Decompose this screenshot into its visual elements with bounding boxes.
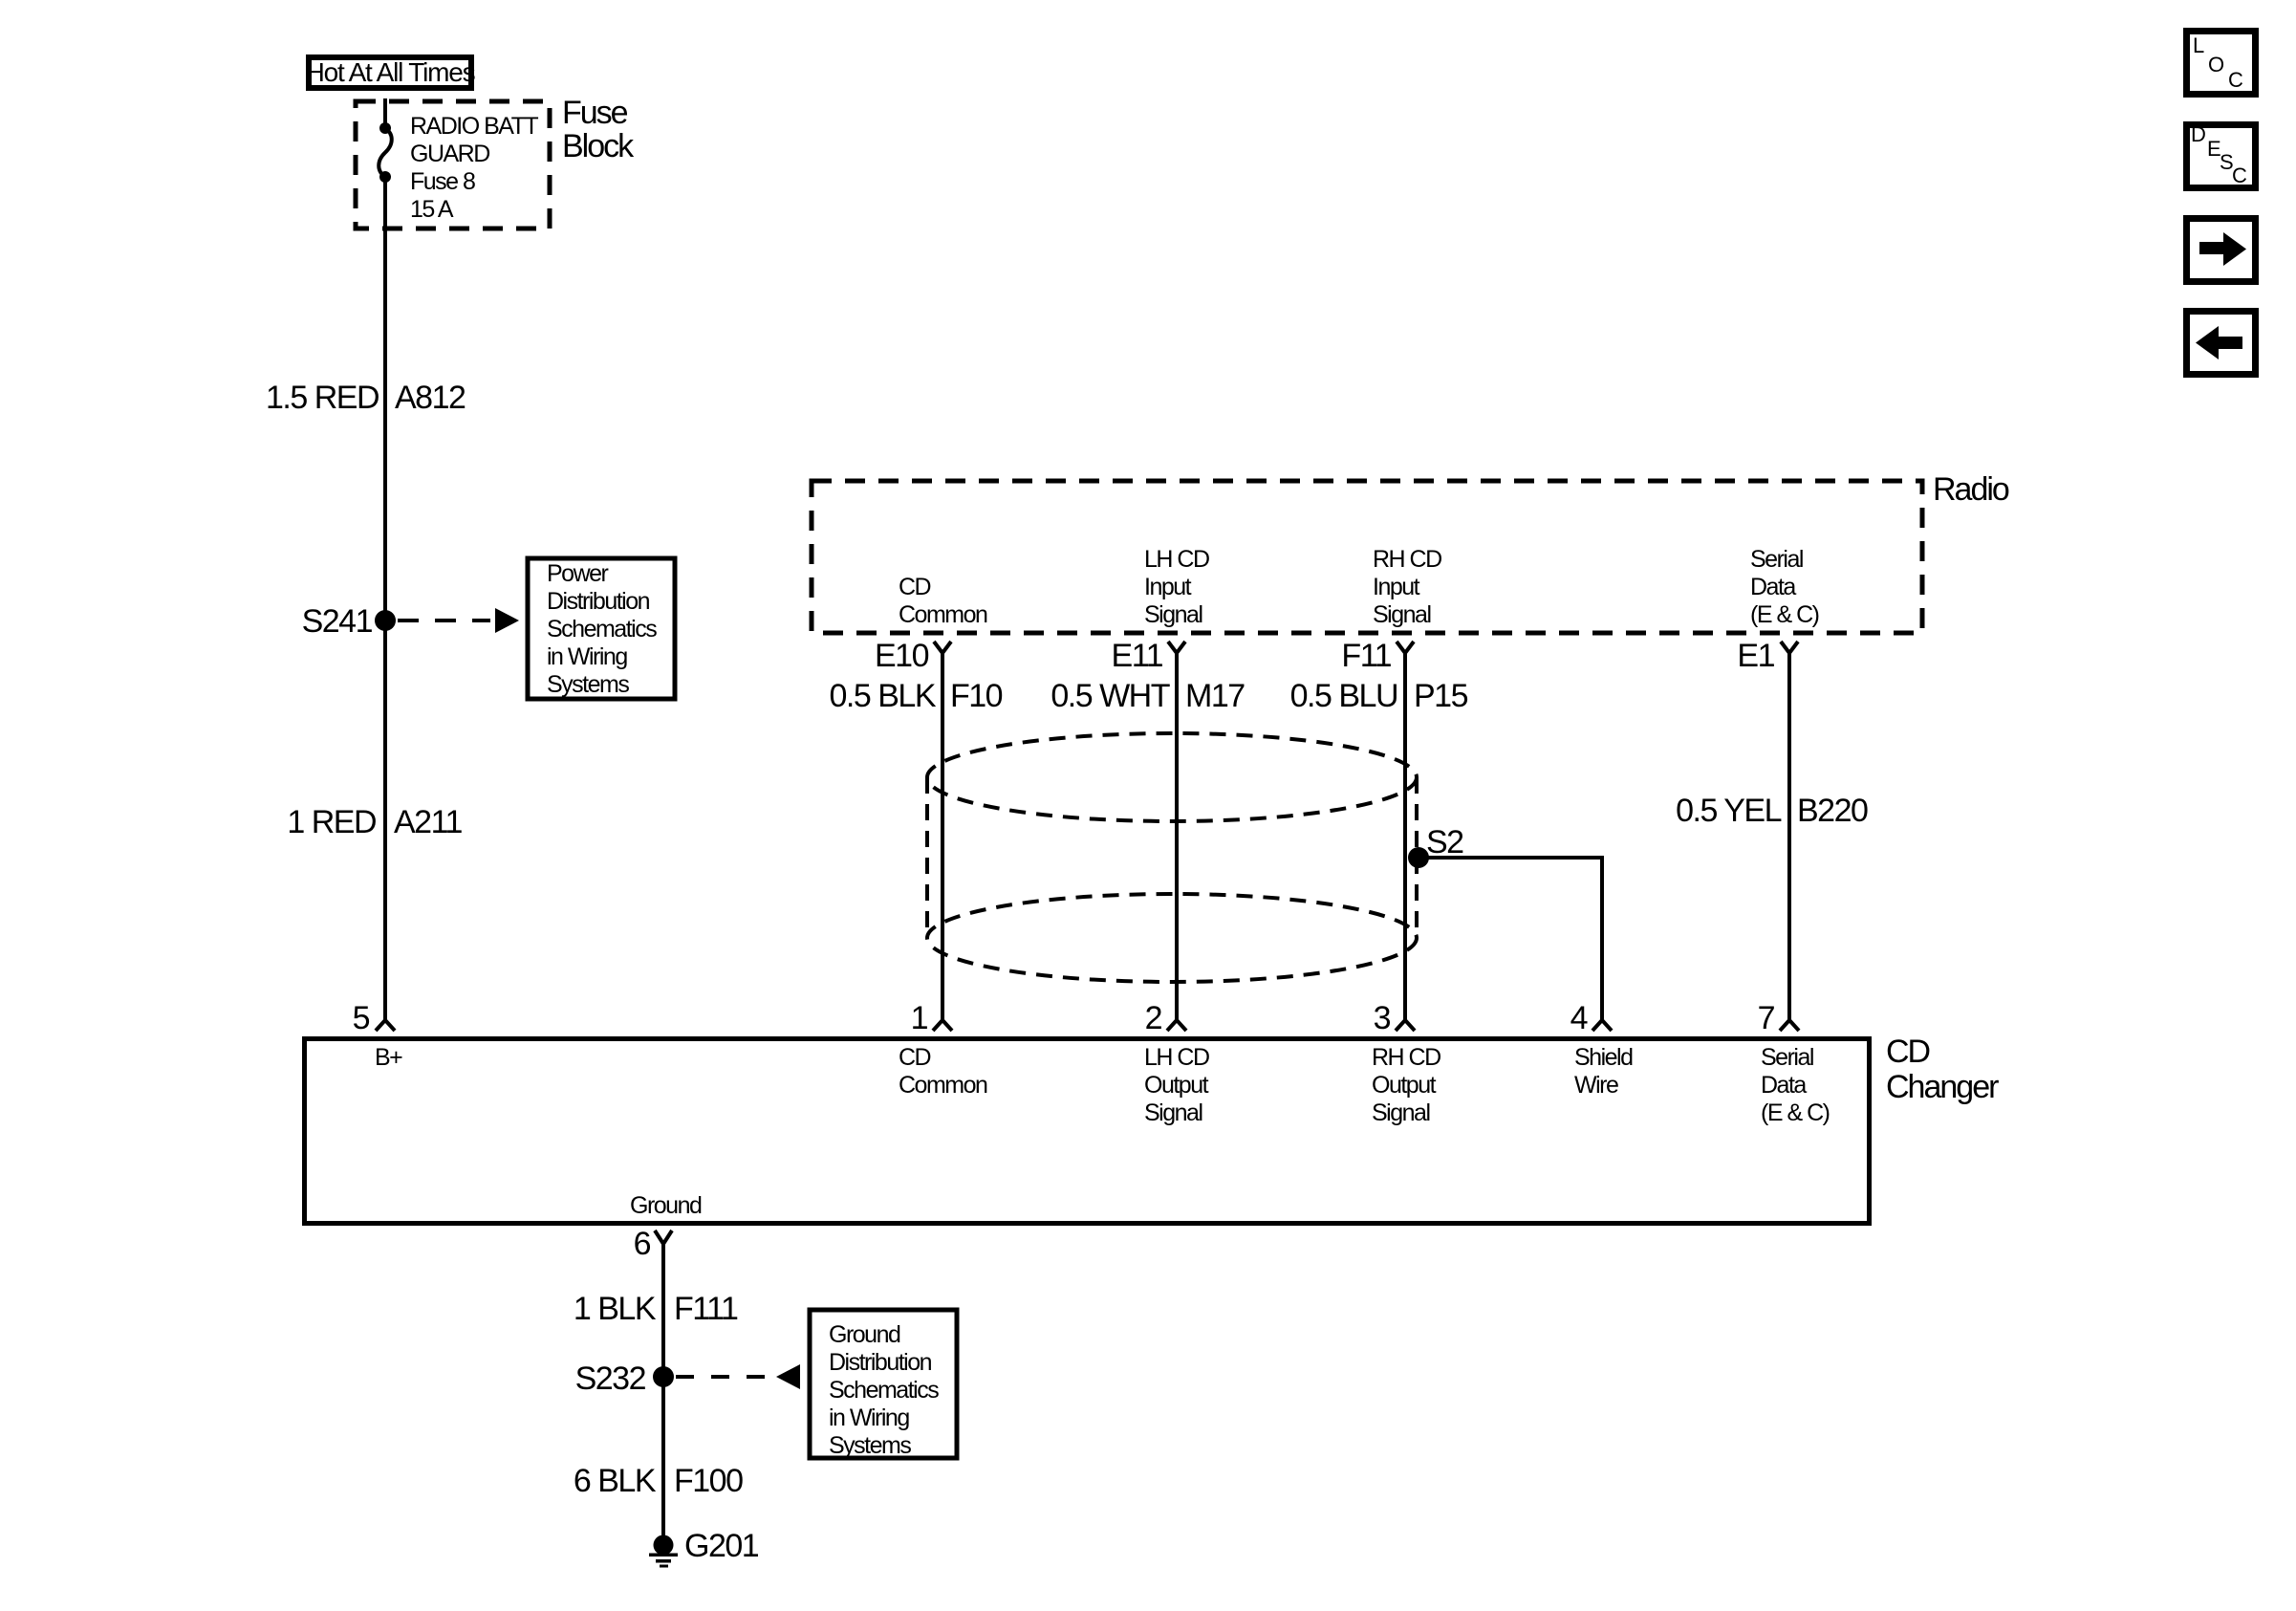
Radio pin E11 connector fork — [1112, 638, 1185, 674]
svg-text:CD: CD — [899, 1044, 931, 1071]
svg-text:LH CD: LH CD — [1144, 1044, 1209, 1071]
fuse block label: Fuse Block — [562, 95, 635, 164]
fuse F8 value label: RADIO BATT GUARD Fuse 8 15 A — [410, 113, 538, 223]
svg-text:in Wiring: in Wiring — [829, 1404, 909, 1431]
svg-text:Fuse: Fuse — [562, 95, 628, 131]
fuse F8 symbol — [379, 122, 392, 183]
CD Changer pin 1 connector fork — [911, 1000, 952, 1036]
CD Changer pin 6 connector fork — [634, 1226, 672, 1262]
fuse block dashed box — [356, 101, 550, 229]
svg-text:S241: S241 — [302, 603, 373, 640]
CD Changer pin label: LH CD Output Signal — [1144, 1044, 1209, 1126]
CD Changer pin label: Ground — [630, 1192, 702, 1219]
svg-text:Shield: Shield — [1574, 1044, 1633, 1071]
legend box: forward arrow — [2187, 219, 2256, 282]
svg-text:Signal: Signal — [1144, 601, 1202, 628]
svg-text:6: 6 — [634, 1226, 651, 1262]
wire: LH CD E11 to pin 2 — [1175, 653, 1179, 1020]
Radio label — [1933, 471, 2009, 508]
legend box: back arrow — [2187, 312, 2256, 375]
svg-text:in Wiring: in Wiring — [547, 643, 627, 670]
svg-text:Ground: Ground — [829, 1321, 900, 1348]
svg-text:3: 3 — [1374, 1000, 1391, 1036]
Radio pin F11 connector fork — [1341, 638, 1414, 674]
svg-text:Changer: Changer — [1886, 1069, 1999, 1105]
wire label: 0.5 YEL B220 — [1676, 793, 1868, 829]
Radio pin label: CD Common — [899, 574, 987, 628]
reference box: Ground Distribution Schematics in Wiring Systems — [810, 1310, 957, 1459]
svg-text:E10: E10 — [875, 638, 929, 674]
CD Changer pin 3 connector fork — [1374, 1000, 1415, 1036]
CD Changer pin 7 connector fork — [1758, 1000, 1799, 1036]
node label: Hot At All Times box — [306, 57, 475, 88]
svg-text:Common: Common — [899, 1072, 987, 1099]
svg-text:Signal: Signal — [1373, 601, 1431, 628]
CD Changer box — [305, 1039, 1870, 1224]
svg-text:D: D — [2191, 122, 2206, 146]
CD Changer pin 4 connector fork — [1570, 1000, 1612, 1036]
svg-text:F100: F100 — [674, 1463, 743, 1499]
dashed reference arrow from S232 to Ground Distribution box — [676, 1364, 800, 1389]
svg-text:GUARD: GUARD — [410, 141, 489, 167]
wire label: 1.5 RED A812 — [266, 380, 466, 416]
svg-text:1.5 RED: 1.5 RED — [266, 380, 379, 416]
wire: battery feed into fuse — [383, 98, 387, 128]
wire: Serial Data E1 to pin 7 — [1787, 653, 1791, 1020]
svg-text:Data: Data — [1750, 574, 1796, 600]
svg-text:A211: A211 — [394, 804, 462, 840]
node S232 junction dot — [575, 1361, 674, 1397]
svg-text:L: L — [2193, 33, 2204, 57]
svg-text:0.5 BLK: 0.5 BLK — [830, 678, 937, 714]
svg-text:S2: S2 — [1426, 824, 1463, 860]
svg-text:(E & C): (E & C) — [1761, 1099, 1830, 1126]
Radio pin E1 connector fork — [1737, 638, 1798, 674]
svg-text:F111: F111 — [674, 1291, 738, 1327]
svg-text:Common: Common — [899, 601, 987, 628]
wire label: 1 RED A211 — [287, 804, 462, 840]
svg-text:Distribution: Distribution — [829, 1349, 932, 1376]
svg-text:RH CD: RH CD — [1372, 1044, 1440, 1071]
svg-text:1: 1 — [911, 1000, 928, 1036]
svg-text:S232: S232 — [575, 1361, 646, 1397]
CD Changer pin label: Serial Data (E & C) — [1761, 1044, 1830, 1126]
svg-text:15 A: 15 A — [410, 196, 454, 223]
Radio pin E10 connector fork — [875, 638, 951, 674]
legend box DESC — [2187, 122, 2256, 188]
svg-text:0.5 BLU: 0.5 BLU — [1290, 678, 1397, 714]
svg-text:Serial: Serial — [1761, 1044, 1813, 1071]
svg-text:7: 7 — [1758, 1000, 1775, 1036]
CD Changer pin label: CD Common — [899, 1044, 987, 1099]
node S241 junction dot — [302, 603, 396, 640]
wire label: 6 BLK F100 — [574, 1463, 743, 1499]
CD Changer pin label: Shield Wire — [1574, 1044, 1633, 1099]
svg-text:0.5 YEL: 0.5 YEL — [1676, 793, 1781, 829]
svg-text:CD: CD — [1886, 1034, 1930, 1070]
shield: dashed cylinder around wires 1-3, top ellipse — [927, 733, 1417, 821]
Radio pin label: Serial Data (E & C) — [1750, 546, 1819, 628]
wire label: 1 BLK F111 — [574, 1291, 738, 1327]
svg-text:F10: F10 — [950, 678, 1003, 714]
CD Changer label — [1886, 1034, 1999, 1105]
reference box: Power Distribution Schematics in Wiring Systems — [528, 558, 675, 699]
svg-text:1 RED: 1 RED — [287, 804, 376, 840]
svg-text:0.5 WHT: 0.5 WHT — [1051, 678, 1169, 714]
wire: 1.5 RED A812 from fuse to S241 and on to pin 5 — [383, 177, 387, 1020]
svg-text:Systems: Systems — [829, 1432, 911, 1459]
svg-text:Output: Output — [1372, 1072, 1437, 1099]
CD Changer pin 5 connector fork — [353, 1000, 395, 1036]
legend box LOC — [2187, 32, 2256, 95]
svg-text:E11: E11 — [1112, 638, 1163, 674]
wire: ground from pin 6 to G201 — [661, 1244, 665, 1535]
svg-text:Distribution: Distribution — [547, 588, 650, 615]
svg-text:Output: Output — [1144, 1072, 1209, 1099]
shield: left dashed side — [925, 777, 929, 938]
svg-text:5: 5 — [353, 1000, 370, 1036]
svg-text:Wire: Wire — [1574, 1072, 1618, 1099]
svg-text:Schematics: Schematics — [829, 1377, 939, 1404]
svg-text:6 BLK: 6 BLK — [574, 1463, 657, 1499]
svg-text:Ground: Ground — [630, 1192, 702, 1219]
svg-text:E1: E1 — [1737, 638, 1774, 674]
svg-text:B220: B220 — [1797, 793, 1868, 829]
wire: shield drain from S2 to pin 4 — [1419, 858, 1602, 1020]
svg-text:B+: B+ — [375, 1044, 402, 1071]
svg-text:CD: CD — [899, 574, 931, 600]
CD Changer pin 2 connector fork — [1145, 1000, 1186, 1036]
svg-text:RH CD: RH CD — [1373, 546, 1441, 573]
svg-text:Fuse 8: Fuse 8 — [410, 168, 475, 195]
wire label: 0.5 WHT M17 — [1051, 678, 1245, 714]
svg-text:Signal: Signal — [1144, 1099, 1202, 1126]
svg-text:Signal: Signal — [1372, 1099, 1430, 1126]
shield: bottom ellipse — [927, 894, 1417, 982]
ground G201 symbol — [649, 1528, 759, 1568]
svg-text:Power: Power — [547, 560, 609, 587]
wire label: 0.5 BLK F10 — [830, 678, 1003, 714]
svg-text:Block: Block — [562, 128, 635, 164]
svg-text:G201: G201 — [684, 1528, 759, 1564]
wire: CD Common E10 to pin 1 — [941, 653, 944, 1020]
CD Changer pin label: B+ — [375, 1044, 402, 1071]
svg-text:LH CD: LH CD — [1144, 546, 1209, 573]
svg-text:F11: F11 — [1341, 638, 1391, 674]
CD Changer pin label: RH CD Output Signal — [1372, 1044, 1440, 1126]
svg-text:Systems: Systems — [547, 671, 629, 698]
svg-text:M17: M17 — [1185, 678, 1245, 714]
svg-text:Hot At All Times: Hot At All Times — [306, 57, 475, 87]
wire: RH CD F11 to pin 3 — [1403, 653, 1407, 1020]
svg-text:4: 4 — [1570, 1000, 1588, 1036]
svg-text:Data: Data — [1761, 1072, 1807, 1099]
Radio pin label: RH CD Input Signal — [1373, 546, 1441, 628]
svg-text:A812: A812 — [395, 380, 466, 416]
svg-text:1 BLK: 1 BLK — [574, 1291, 657, 1327]
wire label: 0.5 BLU P15 — [1290, 678, 1468, 714]
shield: right dashed side — [1415, 777, 1419, 938]
Radio dashed box — [812, 481, 1922, 633]
Radio pin label: LH CD Input Signal — [1144, 546, 1209, 628]
svg-text:O: O — [2208, 53, 2224, 76]
svg-text:C: C — [2232, 163, 2247, 187]
svg-text:P15: P15 — [1414, 678, 1468, 714]
node S2 splice dot on shield — [1408, 824, 1463, 868]
svg-text:Serial: Serial — [1750, 546, 1803, 573]
svg-text:Input: Input — [1373, 574, 1420, 600]
svg-text:Schematics: Schematics — [547, 616, 657, 642]
svg-text:Radio: Radio — [1933, 471, 2009, 508]
svg-text:C: C — [2228, 68, 2243, 92]
svg-text:(E & C): (E & C) — [1750, 601, 1819, 628]
svg-text:2: 2 — [1145, 1000, 1162, 1036]
svg-text:Input: Input — [1144, 574, 1192, 600]
svg-text:RADIO BATT: RADIO BATT — [410, 113, 538, 140]
dashed reference arrow from S241 to Power Distribution box — [398, 608, 519, 633]
